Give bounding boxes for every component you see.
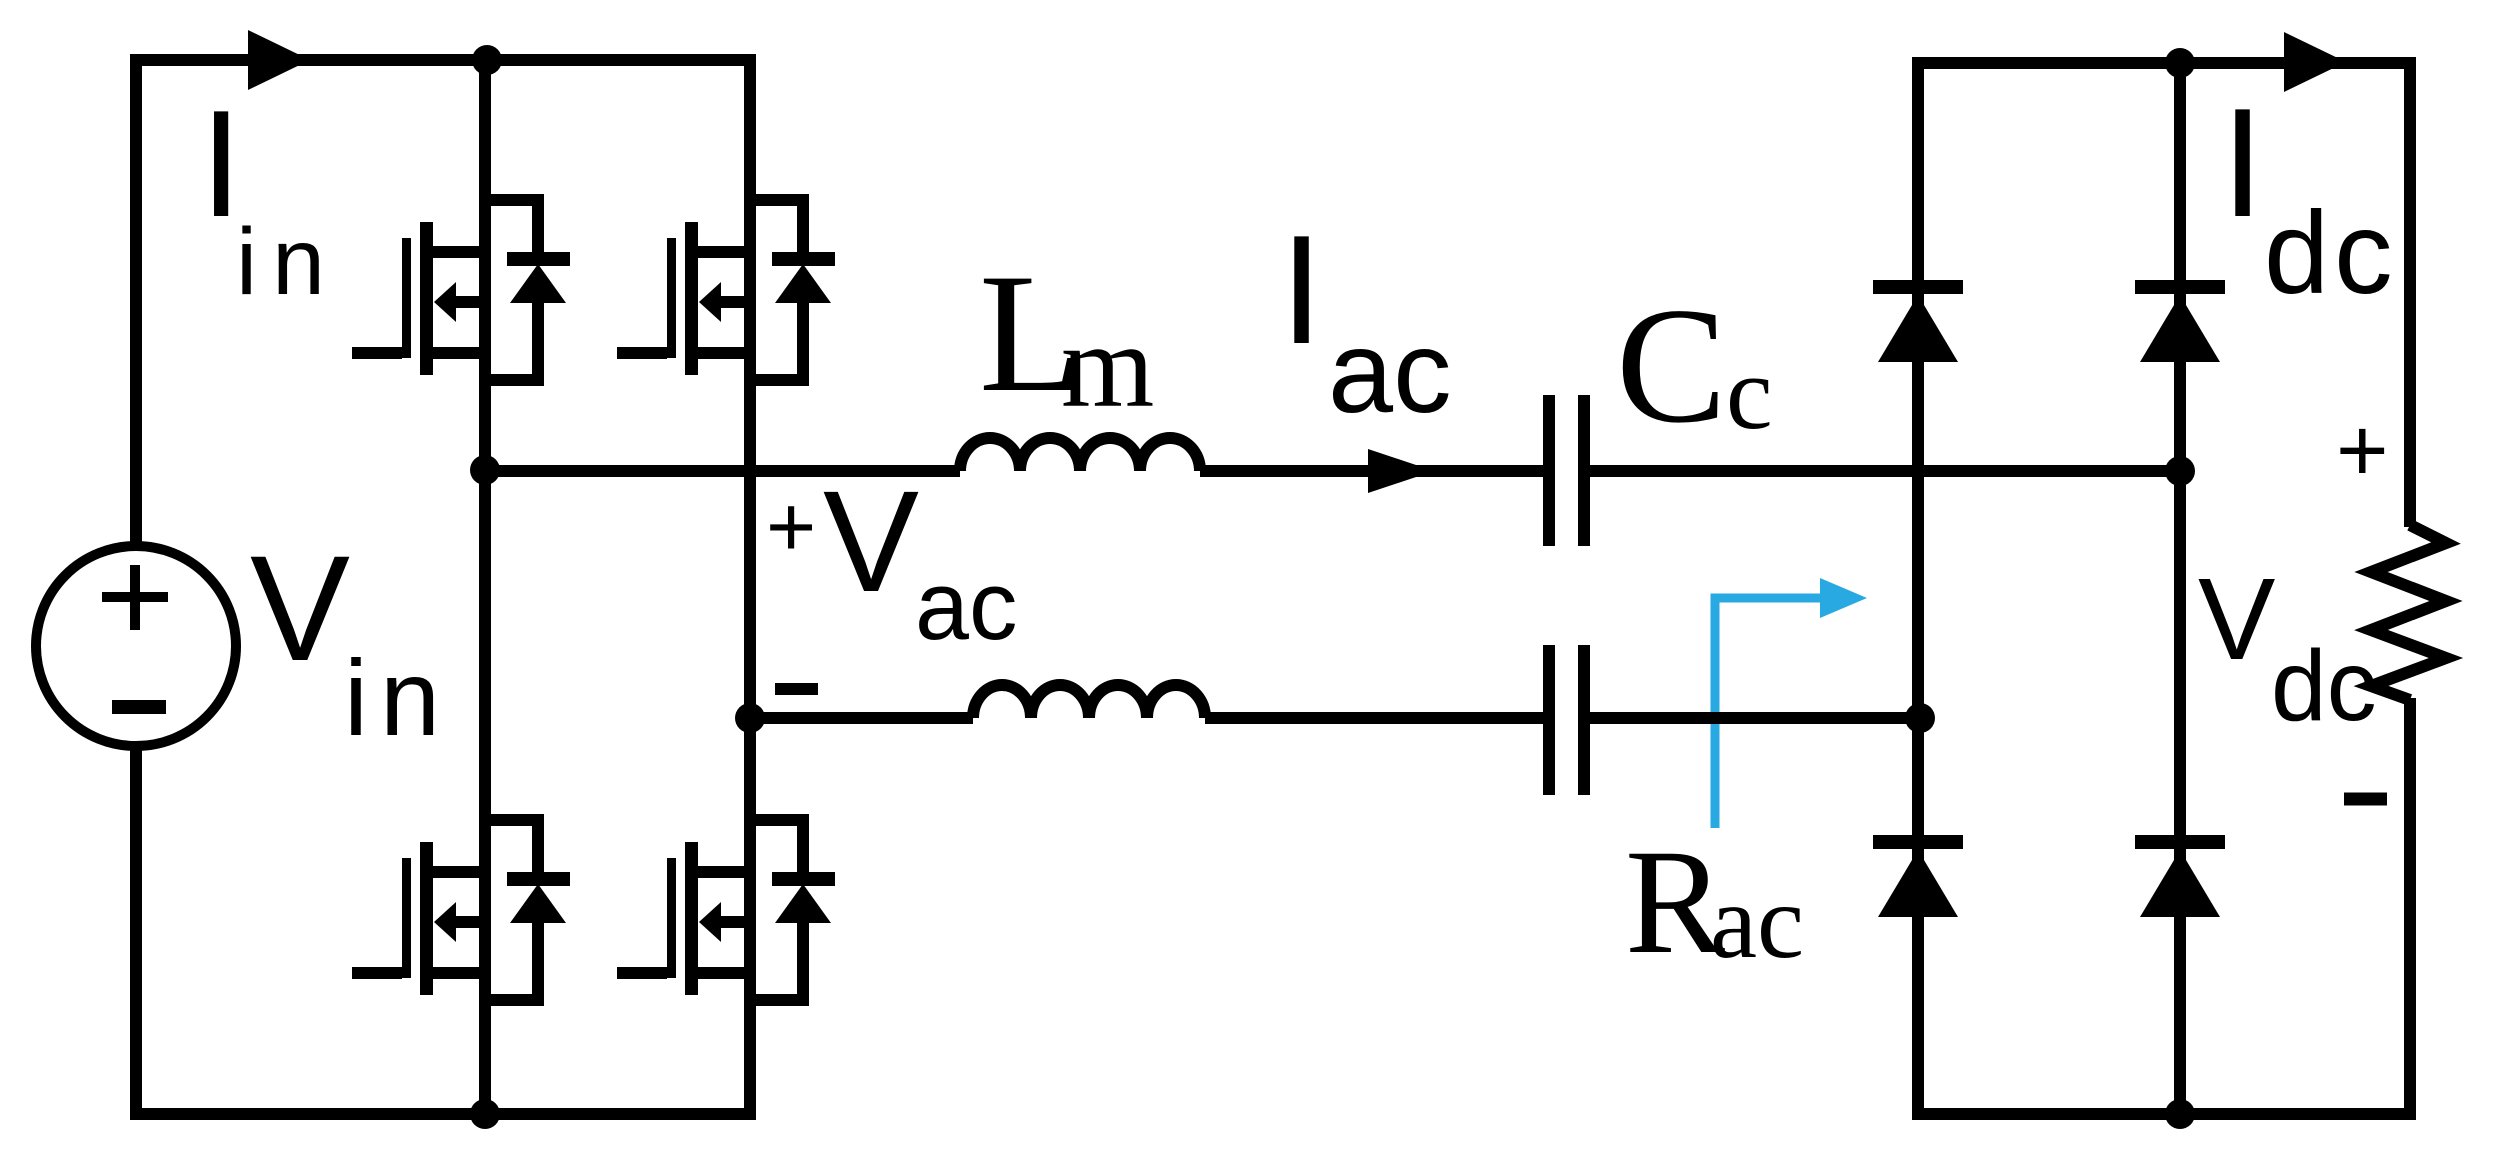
wire bridge right leg bbox=[744, 54, 756, 1120]
svg-text:V: V bbox=[2198, 554, 2275, 684]
junction node AC top to bridge bbox=[2165, 456, 2195, 486]
svg-text:I: I bbox=[2221, 76, 2264, 249]
wire top left horizontal and left rail upper bbox=[136, 60, 756, 546]
wire bridge left leg bbox=[479, 54, 491, 1120]
diode D2 bbox=[2135, 280, 2225, 362]
junction node AC+ bbox=[470, 455, 500, 485]
wire diode bridge bottom and right rail lower bbox=[1918, 698, 2410, 1114]
junction node top left bbox=[472, 45, 502, 75]
svg-text:dc: dc bbox=[2271, 630, 2377, 742]
wire diode bridge top and right rail upper bbox=[1918, 63, 2410, 527]
svg-text:m: m bbox=[1061, 299, 1154, 432]
wire diode bridge left leg bbox=[1912, 57, 1924, 1120]
wire AC bottom segment 2 bbox=[1205, 712, 1544, 724]
capacitor Cc top left plate bbox=[1543, 395, 1555, 546]
resistor load bbox=[2371, 525, 2446, 700]
minus sign output bbox=[2344, 793, 2387, 806]
wire AC bottom segment 1 bbox=[750, 712, 973, 724]
svg-text:+: + bbox=[2336, 401, 2389, 501]
diode D3 bbox=[1873, 835, 1963, 917]
capacitor Cc top right plate bbox=[1578, 395, 1590, 546]
minus sign Vac bbox=[775, 683, 818, 695]
junction node AC- bbox=[735, 703, 765, 733]
svg-text:V: V bbox=[250, 524, 350, 692]
inductor Lm top bbox=[960, 438, 1200, 471]
wire AC bottom segment 3 bbox=[1589, 712, 1920, 724]
capacitor bottom right plate bbox=[1578, 645, 1590, 795]
blue measurement line Rac bbox=[1715, 598, 1822, 828]
inductor bottom bbox=[973, 685, 1205, 718]
current arrow Iac bbox=[1368, 449, 1434, 493]
wire left rail lower and bottom left horizontal bbox=[136, 746, 756, 1114]
svg-text:dc: dc bbox=[2264, 187, 2398, 318]
svg-text:ac: ac bbox=[1328, 306, 1452, 437]
wire AC top segment 3 bbox=[1589, 465, 2180, 477]
svg-text:ac: ac bbox=[1710, 863, 1804, 980]
svg-text:V: V bbox=[823, 461, 919, 622]
junction node bottom left bbox=[470, 1099, 500, 1129]
svg-text:c: c bbox=[1726, 334, 1773, 451]
svg-text:C: C bbox=[1616, 273, 1727, 457]
diode D4 bbox=[2135, 835, 2225, 917]
diode D1 bbox=[1873, 280, 1963, 362]
wire AC top segment 1 bbox=[485, 465, 960, 477]
current arrow Iin bbox=[248, 30, 310, 90]
transistor Q2 bbox=[617, 200, 835, 380]
voltage source Vin circle bbox=[36, 546, 236, 746]
junction node bridge bottom bbox=[2165, 1099, 2195, 1129]
current arrow Idc bbox=[2284, 32, 2346, 92]
transistor Q3 bbox=[352, 820, 570, 1000]
capacitor bottom left plate bbox=[1543, 645, 1555, 795]
blue arrow head Rac bbox=[1820, 578, 1867, 618]
svg-text:in: in bbox=[344, 637, 452, 758]
svg-text:ac: ac bbox=[915, 551, 1017, 660]
transistor Q1 bbox=[352, 200, 570, 380]
minus sign inside Vin bbox=[112, 700, 166, 714]
wire AC top segment 2 bbox=[1200, 465, 1544, 477]
plus sign inside Vin bbox=[102, 565, 168, 630]
svg-text:I: I bbox=[1280, 203, 1323, 376]
wire diode bridge right leg bbox=[2174, 57, 2186, 1120]
transistor Q4 bbox=[617, 820, 835, 1000]
svg-text:in: in bbox=[236, 209, 340, 315]
svg-text:+: + bbox=[766, 479, 816, 575]
junction node diode bridge bottom-left bbox=[1905, 703, 1935, 733]
junction node bridge top bbox=[2165, 48, 2195, 78]
